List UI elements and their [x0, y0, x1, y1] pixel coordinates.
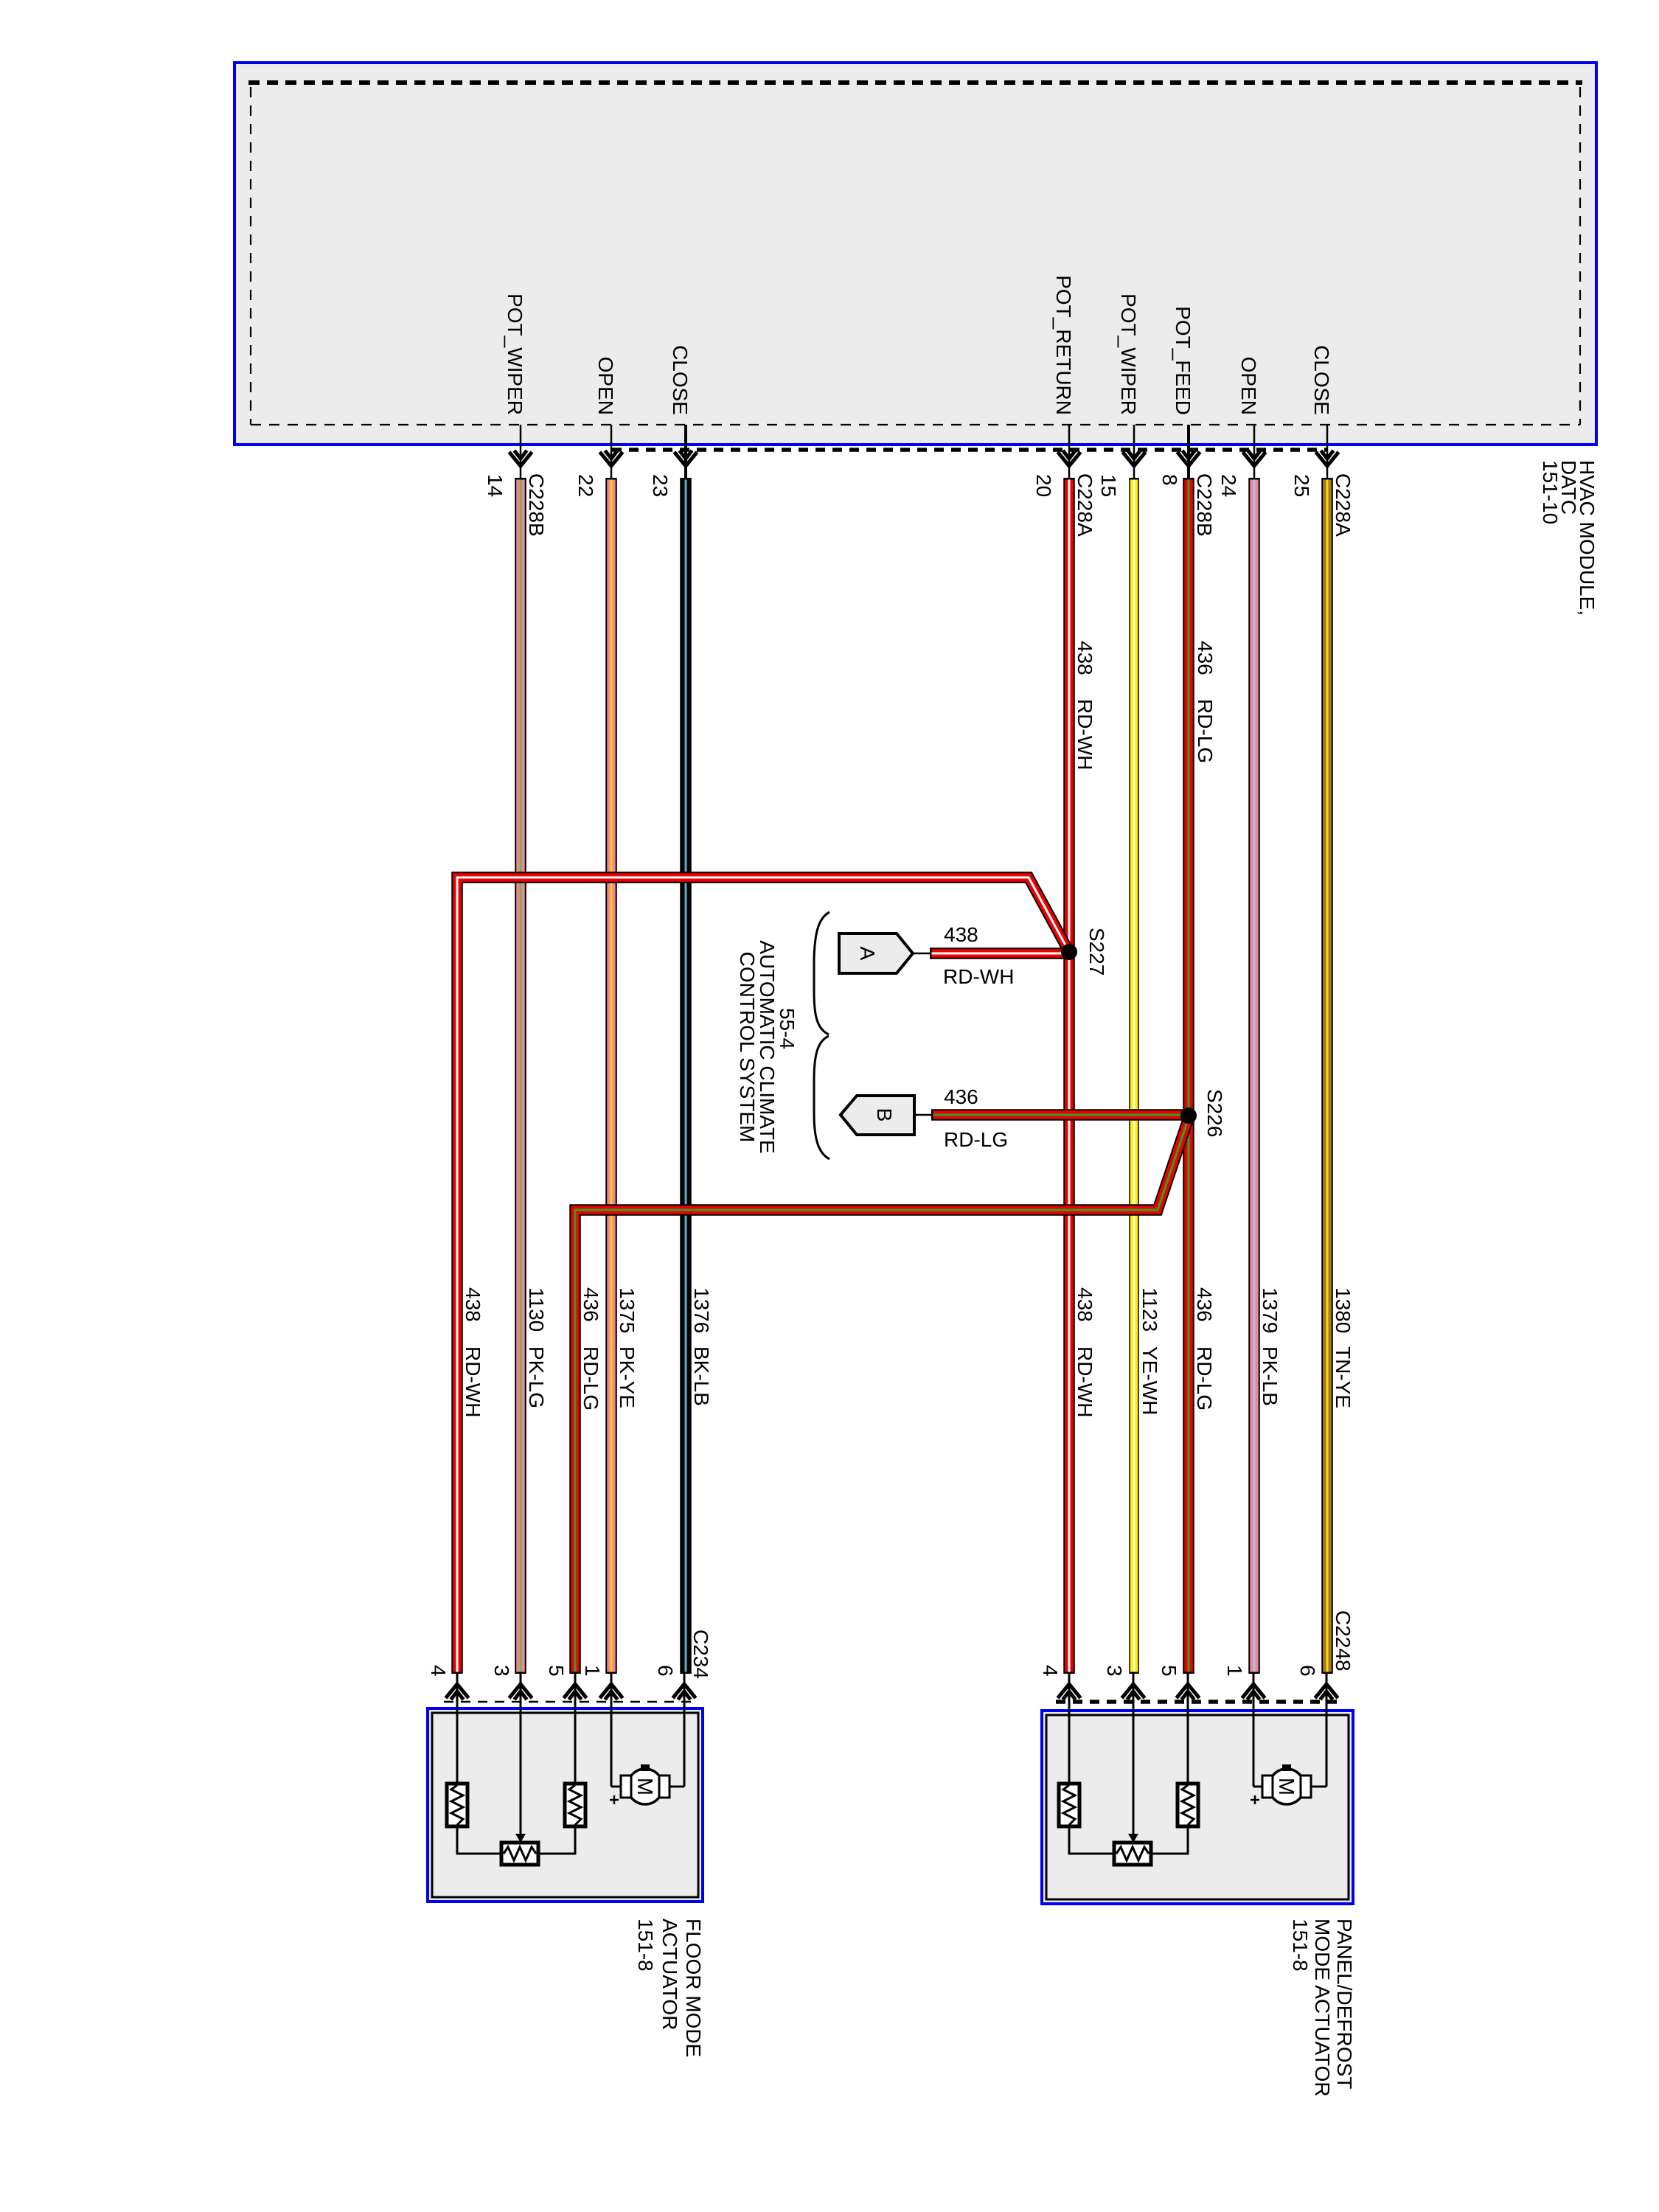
- svg-text:1130: 1130: [525, 1287, 548, 1332]
- svg-text:MODE ACTUATOR: MODE ACTUATOR: [1311, 1919, 1334, 2097]
- svg-text:PK-YE: PK-YE: [616, 1346, 639, 1408]
- svg-text:151-8: 151-8: [634, 1919, 657, 1972]
- svg-text:151-8: 151-8: [1289, 1919, 1312, 1972]
- svg-text:25: 25: [1290, 474, 1313, 497]
- wire 436 RD-LG branch (floor actuator pin 5 to splice S226): [575, 1118, 1189, 1674]
- svg-text:POT_RETURN: POT_RETURN: [1052, 275, 1075, 415]
- svg-text:20: 20: [1032, 474, 1055, 497]
- svg-text:S226: S226: [1203, 1089, 1226, 1137]
- svg-text:RD-LG: RD-LG: [580, 1346, 602, 1411]
- svg-text:8: 8: [1158, 474, 1181, 486]
- resistor (panel/defrost actuator, pin 4 leg): [1059, 1715, 1079, 1826]
- svg-text:4: 4: [1039, 1665, 1062, 1677]
- svg-text:1123: 1123: [1138, 1287, 1161, 1332]
- svg-text:15: 15: [1097, 474, 1120, 497]
- wire 1375 PK-YE (pin 22 to floor actuator pin 1): [605, 478, 617, 1674]
- svg-text:OPEN: OPEN: [1237, 357, 1260, 415]
- svg-text:FLOOR MODE: FLOOR MODE: [682, 1919, 705, 2057]
- label wire 1123 YE-WH (bottom run): [1138, 1287, 1161, 1415]
- svg-text:1379: 1379: [1259, 1287, 1281, 1333]
- panel/defrost actuator pin 1: [1223, 1665, 1265, 1715]
- panel/defrost actuator pin 5: [1158, 1665, 1200, 1715]
- svg-text:POT_WIPER: POT_WIPER: [504, 293, 526, 415]
- module pin 20 POT_RETURN: [1032, 275, 1096, 537]
- floor actuator pin 6: [654, 1665, 696, 1713]
- svg-text:C2248: C2248: [1332, 1610, 1354, 1672]
- label wire 1375 PK-YE (bottom run): [616, 1287, 639, 1408]
- module pin 25 CLOSE: [1290, 345, 1354, 537]
- svg-text:RD-LG: RD-LG: [1193, 1346, 1216, 1411]
- svg-text:S227: S227: [1085, 928, 1108, 975]
- svg-text:3: 3: [490, 1665, 513, 1677]
- svg-text:C228B: C228B: [1193, 473, 1216, 537]
- resistor (panel/defrost actuator, pin 5 leg): [1178, 1715, 1198, 1826]
- label wire 1379 PK-LB (bottom run): [1259, 1287, 1281, 1406]
- label wire 1130 PK-LG (bottom run): [525, 1287, 548, 1408]
- floor actuator pin 5: [545, 1665, 587, 1713]
- wire 1376 BK-LB (pin 23 to floor actuator pin 6): [680, 478, 692, 1674]
- svg-text:M: M: [1274, 1778, 1298, 1795]
- panel/defrost actuator pin 3: [1103, 1665, 1145, 1715]
- svg-text:5: 5: [545, 1665, 568, 1677]
- svg-text:RD-WH: RD-WH: [1074, 1346, 1096, 1417]
- floor actuator pin 1: [581, 1665, 623, 1713]
- module pin 22 OPEN: [574, 357, 623, 498]
- svg-text:M: M: [633, 1778, 656, 1795]
- motor M (panel/defrost actuator): [1251, 1715, 1326, 1804]
- label wire 436 RD-LG (right bottom run): [1193, 1287, 1216, 1411]
- svg-text:RD-LG: RD-LG: [1194, 699, 1217, 763]
- resistor (floor actuator, pin 4 leg): [447, 1713, 467, 1826]
- svg-text:CONTROL SYSTEM: CONTROL SYSTEM: [736, 952, 759, 1143]
- svg-text:14: 14: [484, 474, 507, 497]
- wire 1379 PK-LB (pin 24 to panel/defrost actuator pin 1): [1248, 478, 1260, 1674]
- svg-text:3: 3: [1103, 1665, 1126, 1677]
- svg-text:1: 1: [581, 1665, 604, 1677]
- floor actuator pin 3: [490, 1665, 532, 1713]
- svg-text:436: 436: [580, 1287, 602, 1322]
- potentiometer (floor actuator): [456, 1713, 577, 1865]
- svg-text:CLOSE: CLOSE: [669, 345, 692, 415]
- motor M (floor actuator): [610, 1713, 684, 1804]
- wire 1123 YE-WH (pin 15 to panel/defrost actuator pin 3): [1129, 478, 1139, 1674]
- svg-text:C228B: C228B: [525, 473, 548, 537]
- svg-text:CLOSE: CLOSE: [1310, 345, 1333, 415]
- wire 438 RD-WH branch (floor actuator pin 4 to splice S227): [457, 877, 1069, 1674]
- wire 436 RD-LG stub (tag B to splice S226): [931, 1109, 1189, 1121]
- floor mode actuator name label: [634, 1919, 705, 2057]
- HVAC module DATC box: [234, 63, 1596, 445]
- resistor (floor actuator, pin 5 leg): [565, 1713, 585, 1826]
- panel/defrost mode actuator box: [1042, 1702, 1353, 1904]
- svg-text:PK-LG: PK-LG: [525, 1346, 548, 1408]
- svg-text:22: 22: [574, 474, 597, 497]
- module pin 14 POT_WIPER: [484, 293, 548, 537]
- svg-text:B: B: [873, 1108, 896, 1122]
- svg-text:1: 1: [1223, 1665, 1246, 1677]
- wire 438 RD-WH (pin 20 to panel/defrost actuator pin 4): [1063, 478, 1075, 1674]
- svg-text:1375: 1375: [616, 1287, 639, 1333]
- label wire 438 RD-WH (left bottom run): [462, 1287, 484, 1417]
- splice S227: [1061, 928, 1108, 975]
- svg-text:TN-YE: TN-YE: [1332, 1346, 1354, 1408]
- label wire 1380 TN-YE (bottom run): [1332, 1287, 1354, 1408]
- connector dashed link (C228): [612, 448, 1327, 452]
- brace 55-4 automatic climate control system: [814, 912, 829, 1159]
- potentiometer (panel/defrost actuator): [1068, 1715, 1189, 1865]
- wire 436 RD-LG (pin 8 to panel/defrost actuator pin 5): [1183, 478, 1194, 1674]
- svg-text:6: 6: [654, 1665, 677, 1677]
- wire 1380 TN-YE (pin 25 to panel/defrost actuator pin 6): [1321, 478, 1333, 1674]
- label wire 438 RD-WH (top run): [1074, 641, 1096, 770]
- svg-text:436: 436: [944, 1085, 978, 1108]
- svg-text:438: 438: [462, 1287, 484, 1322]
- svg-text:1376: 1376: [690, 1287, 713, 1333]
- svg-text:23: 23: [649, 474, 672, 497]
- label 55-4 automatic climate control system: [736, 940, 799, 1153]
- wire 1130 PK-LG (pin 14 to floor actuator pin 3): [515, 478, 526, 1674]
- svg-text:RD-LG: RD-LG: [944, 1128, 1008, 1151]
- wire 438 RD-WH stub (tag A to splice S227): [930, 947, 1069, 959]
- label 436 RD-LG (tag B stub): [944, 1085, 1008, 1151]
- module pin 24 OPEN: [1217, 357, 1266, 498]
- tag A (438 RD-WH to automatic climate control system): [839, 933, 931, 973]
- svg-text:438: 438: [944, 923, 978, 946]
- svg-text:POT_FEED: POT_FEED: [1172, 306, 1194, 415]
- label 438 RD-WH (tag A stub): [943, 923, 1014, 988]
- splice S226: [1180, 1089, 1226, 1137]
- svg-text:OPEN: OPEN: [594, 357, 617, 415]
- svg-text:438: 438: [1074, 1287, 1096, 1322]
- label wire 436 RD-LG (left bottom run): [580, 1287, 602, 1411]
- svg-text:4: 4: [427, 1665, 450, 1677]
- module pin 15 POT_WIPER: [1097, 293, 1146, 497]
- svg-text:PK-LB: PK-LB: [1259, 1346, 1281, 1406]
- svg-text:436: 436: [1193, 1287, 1216, 1322]
- svg-text:5: 5: [1158, 1665, 1180, 1677]
- svg-text:151-10: 151-10: [1539, 460, 1562, 524]
- floor mode actuator box: [428, 1702, 703, 1902]
- svg-text:C228A: C228A: [1074, 473, 1096, 537]
- HVAC module name label: [1539, 460, 1599, 616]
- panel/defrost actuator pin 4: [1039, 1665, 1081, 1715]
- svg-text:BK-LB: BK-LB: [690, 1346, 713, 1406]
- svg-text:C228A: C228A: [1332, 473, 1354, 537]
- tag B (436 RD-LG to automatic climate control system): [841, 1096, 933, 1135]
- label wire 436 RD-LG (top run): [1194, 641, 1217, 763]
- svg-text:A: A: [856, 947, 879, 961]
- floor actuator pin 4: [427, 1665, 469, 1713]
- svg-text:1380: 1380: [1332, 1287, 1354, 1333]
- svg-text:RD-WH: RD-WH: [462, 1346, 484, 1417]
- label wire 438 RD-WH (right bottom run): [1074, 1287, 1096, 1417]
- svg-text:438: 438: [1074, 641, 1096, 675]
- svg-text:PANEL/DEFROST: PANEL/DEFROST: [1333, 1919, 1356, 2089]
- module pin 23 CLOSE: [649, 345, 698, 497]
- svg-text:C234: C234: [689, 1630, 712, 1679]
- svg-text:POT_WIPER: POT_WIPER: [1117, 293, 1140, 415]
- svg-text:ACTUATOR: ACTUATOR: [658, 1919, 681, 2030]
- svg-text:RD-WH: RD-WH: [1074, 699, 1096, 770]
- panel/defrost mode actuator name label: [1289, 1919, 1356, 2097]
- svg-text:24: 24: [1217, 474, 1240, 497]
- module pin 8 POT_FEED: [1158, 306, 1216, 536]
- panel/defrost actuator pin 6: [1296, 1665, 1338, 1715]
- svg-text:6: 6: [1296, 1665, 1319, 1677]
- label wire 1376 BK-LB (bottom run): [690, 1287, 713, 1406]
- svg-text:RD-WH: RD-WH: [943, 965, 1014, 988]
- svg-text:436: 436: [1194, 641, 1217, 675]
- svg-text:YE-WH: YE-WH: [1138, 1346, 1161, 1415]
